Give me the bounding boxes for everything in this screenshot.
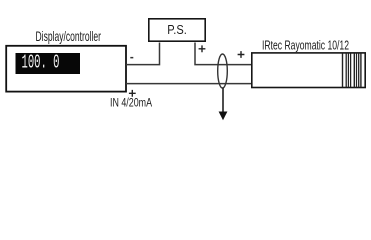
power supply box P.S. bbox=[149, 19, 205, 41]
svg-text:Display/controller: Display/controller bbox=[36, 29, 102, 44]
svg-text:IN 4/20mA: IN 4/20mA bbox=[110, 96, 153, 110]
cable loop ellipse bbox=[218, 54, 228, 88]
label plus at display input bbox=[129, 90, 136, 97]
svg-text:100. 0: 100. 0 bbox=[22, 52, 60, 74]
sensor cooling fins stripe 8 bbox=[360, 53, 362, 87]
sensor cooling fins stripe 4 bbox=[350, 53, 352, 87]
sensor cooling fins stripe 1 bbox=[342, 53, 344, 87]
wire P.S. right pin to sensor plus bbox=[195, 43, 252, 65]
label plus at P.S. right pin bbox=[199, 45, 206, 52]
svg-text:IRtec Rayomatic 10/12: IRtec Rayomatic 10/12 bbox=[262, 38, 349, 52]
label minus bbox=[130, 57, 133, 59]
sensor cooling fins stripe 6 bbox=[356, 53, 358, 87]
sensor cooling fins stripe 2 bbox=[345, 53, 347, 87]
sensor cooling fins stripe 5 bbox=[353, 53, 355, 87]
sensor cooling fins stripe 3 bbox=[347, 53, 349, 87]
display/controller box U1 bbox=[6, 46, 126, 92]
sensor body IRtec Rayomatic bbox=[252, 53, 365, 88]
cable shield drain arrow head bbox=[219, 112, 228, 121]
sensor cooling fins stripe 7 bbox=[358, 53, 360, 87]
wire display minus to P.S. left pin bbox=[126, 43, 160, 65]
cable shield drain arrow shaft bbox=[222, 88, 224, 113]
label plus at sensor terminal bbox=[238, 51, 245, 58]
wire display plus to sensor (4/20mA loop) bbox=[126, 83, 252, 85]
svg-text:P.S.: P.S. bbox=[167, 22, 187, 37]
digital readout window bbox=[16, 53, 81, 74]
